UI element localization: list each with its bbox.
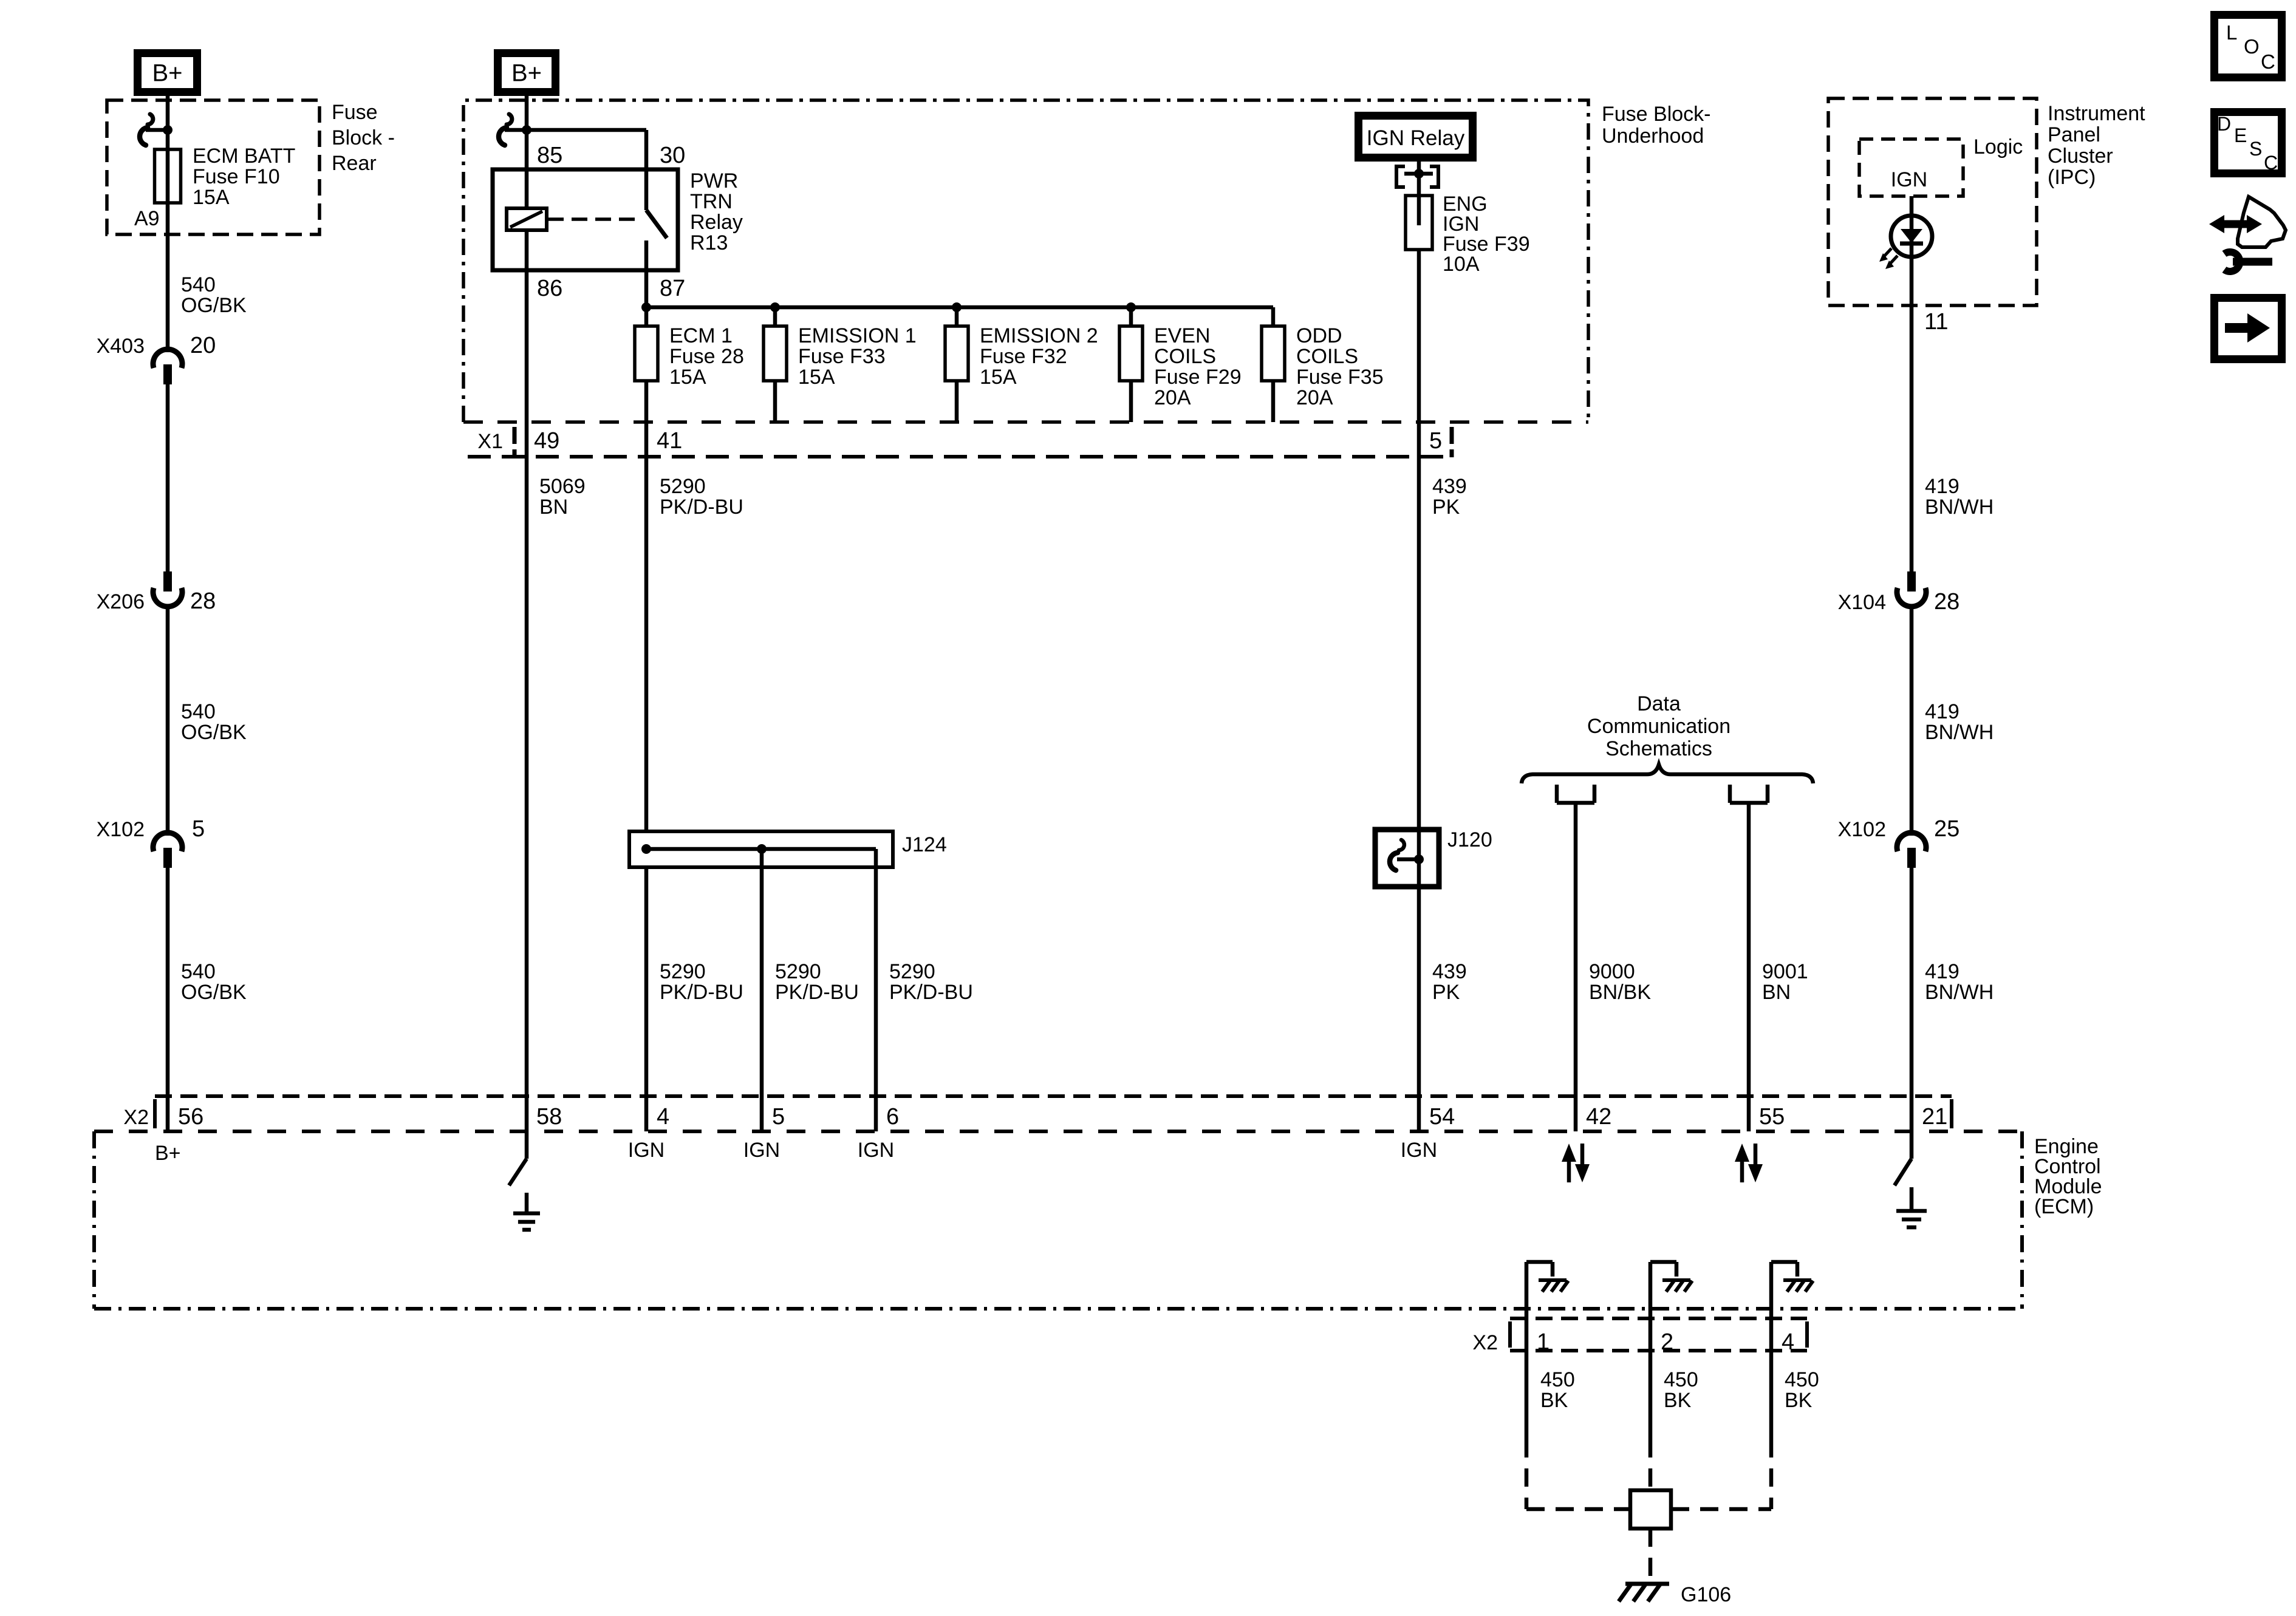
svg-text:BK: BK [1540, 1389, 1568, 1412]
svg-text:J120: J120 [1447, 828, 1492, 851]
svg-text:X2: X2 [123, 1106, 149, 1129]
svg-text:A9: A9 [134, 207, 160, 230]
svg-text:Data: Data [1637, 692, 1681, 715]
svg-text:419: 419 [1925, 960, 1959, 983]
svg-text:439: 439 [1432, 475, 1467, 498]
svg-text:28: 28 [190, 588, 216, 614]
svg-text:15A: 15A [193, 186, 230, 209]
svg-text:Communication: Communication [1587, 715, 1731, 738]
svg-text:5290: 5290 [775, 960, 821, 983]
svg-text:Rear: Rear [332, 152, 377, 175]
svg-text:Panel: Panel [2048, 123, 2100, 146]
svg-text:Block -: Block - [332, 126, 395, 149]
svg-text:15A: 15A [669, 366, 706, 389]
svg-text:15A: 15A [980, 366, 1017, 389]
svg-text:D: D [2217, 113, 2231, 135]
svg-text:ECM 1: ECM 1 [669, 324, 733, 347]
svg-text:21: 21 [1922, 1104, 1947, 1130]
svg-text:PK/D-BU: PK/D-BU [889, 981, 973, 1004]
svg-text:X102: X102 [97, 818, 145, 841]
svg-text:OG/BK: OG/BK [181, 721, 247, 744]
svg-text:450: 450 [1785, 1368, 1819, 1391]
svg-text:450: 450 [1664, 1368, 1698, 1391]
svg-text:Fuse F33: Fuse F33 [798, 345, 886, 368]
svg-text:BN/WH: BN/WH [1925, 496, 1994, 519]
svg-text:5290: 5290 [889, 960, 935, 983]
svg-text:5: 5 [192, 816, 205, 842]
svg-text:20A: 20A [1296, 386, 1333, 409]
svg-text:Fuse F29: Fuse F29 [1154, 366, 1242, 389]
svg-text:B+: B+ [155, 1142, 181, 1165]
svg-text:X1: X1 [477, 430, 503, 453]
svg-text:9000: 9000 [1589, 960, 1635, 983]
svg-text:IGN: IGN [628, 1139, 665, 1162]
svg-text:COILS: COILS [1296, 345, 1358, 368]
svg-text:R13: R13 [690, 231, 728, 254]
svg-text:IGN: IGN [1891, 168, 1927, 191]
svg-text:Underhood: Underhood [1602, 124, 1704, 148]
svg-text:X102: X102 [1838, 818, 1886, 841]
svg-text:C: C [2264, 152, 2278, 174]
svg-text:9001: 9001 [1762, 960, 1808, 983]
svg-text:C: C [2261, 50, 2275, 73]
svg-text:EVEN: EVEN [1154, 324, 1211, 347]
svg-text:G106: G106 [1681, 1583, 1731, 1606]
svg-text:PK: PK [1432, 981, 1460, 1004]
svg-text:87: 87 [660, 276, 685, 301]
svg-text:540: 540 [181, 700, 216, 723]
svg-text:28: 28 [1934, 589, 1959, 615]
svg-text:X104: X104 [1838, 591, 1886, 614]
svg-text:Fuse 28: Fuse 28 [669, 345, 744, 368]
svg-text:41: 41 [657, 428, 682, 454]
svg-text:ODD: ODD [1296, 324, 1342, 347]
svg-text:540: 540 [181, 273, 216, 296]
svg-text:E: E [2234, 124, 2247, 146]
svg-text:PK/D-BU: PK/D-BU [660, 496, 743, 519]
svg-text:PK/D-BU: PK/D-BU [660, 981, 743, 1004]
svg-text:Logic: Logic [1973, 135, 2023, 159]
svg-text:(ECM): (ECM) [2034, 1195, 2094, 1218]
svg-text:O: O [2244, 35, 2260, 58]
svg-text:419: 419 [1925, 475, 1959, 498]
svg-text:TRN: TRN [690, 190, 733, 213]
svg-text:450: 450 [1540, 1368, 1575, 1391]
svg-text:J124: J124 [902, 833, 947, 856]
svg-text:PK/D-BU: PK/D-BU [775, 981, 859, 1004]
svg-text:5069: 5069 [539, 475, 586, 498]
svg-text:COILS: COILS [1154, 345, 1216, 368]
svg-text:20A: 20A [1154, 386, 1191, 409]
svg-text:PWR: PWR [690, 169, 738, 193]
svg-text:B+: B+ [511, 60, 542, 87]
svg-text:BK: BK [1785, 1389, 1813, 1412]
svg-text:IGN: IGN [743, 1139, 780, 1162]
svg-text:Schematics: Schematics [1605, 737, 1712, 760]
svg-text:86: 86 [537, 276, 562, 301]
svg-text:X403: X403 [97, 335, 145, 358]
svg-text:2: 2 [1661, 1329, 1673, 1355]
svg-text:55: 55 [1759, 1104, 1785, 1130]
svg-text:58: 58 [536, 1104, 562, 1130]
svg-text:20: 20 [190, 333, 216, 358]
svg-text:PK: PK [1432, 496, 1460, 519]
svg-text:15A: 15A [798, 366, 835, 389]
svg-text:EMISSION 2: EMISSION 2 [980, 324, 1098, 347]
svg-text:5290: 5290 [660, 960, 706, 983]
svg-text:30: 30 [660, 143, 685, 168]
svg-text:BN: BN [1762, 981, 1791, 1004]
svg-text:OG/BK: OG/BK [181, 981, 247, 1004]
svg-text:419: 419 [1925, 700, 1959, 723]
svg-text:Fuse F32: Fuse F32 [980, 345, 1067, 368]
svg-text:Instrument: Instrument [2048, 102, 2145, 125]
svg-text:5290: 5290 [660, 475, 706, 498]
svg-text:EMISSION 1: EMISSION 1 [798, 324, 917, 347]
svg-text:4: 4 [1782, 1329, 1794, 1355]
svg-text:5: 5 [772, 1104, 785, 1130]
svg-text:439: 439 [1432, 960, 1467, 983]
svg-text:IGN: IGN [858, 1139, 894, 1162]
svg-text:Relay: Relay [690, 211, 743, 234]
svg-text:BN/BK: BN/BK [1589, 981, 1651, 1004]
svg-text:S: S [2249, 138, 2262, 160]
svg-text:X2: X2 [1472, 1331, 1498, 1354]
svg-text:BN/WH: BN/WH [1925, 981, 1994, 1004]
svg-text:Fuse F10: Fuse F10 [193, 165, 280, 188]
svg-text:BN: BN [539, 496, 568, 519]
svg-text:BN/WH: BN/WH [1925, 721, 1994, 744]
svg-text:5: 5 [1429, 428, 1442, 454]
svg-text:11: 11 [1924, 309, 1948, 335]
svg-text:B+: B+ [152, 60, 182, 87]
svg-text:Cluster: Cluster [2048, 145, 2113, 168]
svg-text:OG/BK: OG/BK [181, 294, 247, 317]
svg-text:54: 54 [1429, 1104, 1455, 1130]
svg-text:4: 4 [657, 1104, 669, 1130]
svg-text:540: 540 [181, 960, 216, 983]
svg-text:49: 49 [534, 428, 559, 454]
svg-text:10A: 10A [1443, 253, 1480, 276]
svg-text:6: 6 [886, 1104, 899, 1130]
svg-text:Fuse F35: Fuse F35 [1296, 366, 1384, 389]
svg-text:ECM BATT: ECM BATT [193, 145, 295, 168]
svg-text:1: 1 [1537, 1329, 1549, 1355]
svg-text:BK: BK [1664, 1389, 1692, 1412]
svg-text:Fuse: Fuse [332, 101, 378, 124]
svg-text:IGN Relay: IGN Relay [1367, 126, 1465, 150]
svg-text:L: L [2226, 21, 2237, 44]
svg-text:IGN: IGN [1401, 1139, 1437, 1162]
svg-text:42: 42 [1586, 1104, 1611, 1130]
svg-text:56: 56 [178, 1104, 203, 1130]
svg-text:(IPC): (IPC) [2048, 166, 2096, 189]
svg-text:85: 85 [537, 143, 562, 168]
svg-text:Fuse Block-: Fuse Block- [1602, 103, 1711, 126]
svg-text:25: 25 [1934, 816, 1959, 842]
svg-text:X206: X206 [97, 590, 145, 613]
